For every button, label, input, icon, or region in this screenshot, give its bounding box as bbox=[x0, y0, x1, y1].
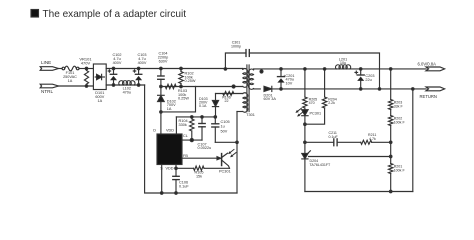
svg-text:T301: T301 bbox=[246, 113, 255, 117]
resistor R103 bbox=[165, 84, 176, 88]
node junction C103 top bbox=[137, 67, 140, 70]
node output pin RETURN bbox=[426, 87, 445, 91]
capacitor C105 bbox=[212, 117, 219, 142]
capacitor C203 bbox=[355, 69, 364, 89]
node junction drain bbox=[160, 111, 163, 114]
capacitor C211 value label bbox=[329, 131, 339, 139]
node junction S pin ground bbox=[160, 192, 163, 195]
resistor R104 value label bbox=[179, 119, 188, 127]
node junction R204 top bbox=[323, 68, 326, 71]
wire secondary top stub bbox=[254, 68, 427, 71]
wire R201 to ground bbox=[390, 174, 392, 192]
diode D103 bbox=[212, 94, 218, 117]
capacitor C105 value label bbox=[221, 120, 230, 134]
resistor R102 bbox=[179, 72, 183, 84]
node junction C103 bottom bbox=[137, 84, 140, 87]
node junction R205 top bbox=[304, 68, 307, 71]
wire LED to feedback node bbox=[304, 124, 306, 153]
svg-text:50V: 50V bbox=[221, 129, 228, 133]
node LINE input pin bbox=[40, 67, 58, 71]
wire VDD rail bbox=[176, 116, 215, 118]
resistor R105 value label bbox=[194, 170, 203, 178]
svg-text:0.25W: 0.25W bbox=[178, 97, 189, 101]
title bullet square bbox=[31, 10, 39, 18]
svg-text:The example of a adapter circu: The example of a adapter circuit bbox=[43, 9, 187, 20]
node junction C105 top bbox=[214, 116, 217, 119]
svg-text:22: 22 bbox=[225, 99, 229, 103]
node NTRL input pin bbox=[40, 84, 58, 88]
resistor R104 bbox=[190, 117, 194, 140]
transformer T301 secondary winding bbox=[249, 69, 254, 89]
wire primary ground rail bbox=[236, 112, 238, 194]
wire compensation mid bbox=[337, 141, 361, 143]
bridge rectifier D101 bbox=[93, 64, 106, 90]
capacitor C301 bbox=[246, 50, 249, 57]
svg-text:0.25W: 0.25W bbox=[185, 79, 196, 83]
transformer T301 primary winding bbox=[243, 69, 248, 88]
resistor R211 bbox=[361, 140, 372, 144]
svg-text:PC301: PC301 bbox=[310, 111, 322, 115]
svg-text:1A: 1A bbox=[68, 79, 73, 83]
IC pin VDD bottom wire bbox=[175, 165, 177, 169]
shunt regulator label bbox=[310, 159, 332, 167]
svg-text:FB: FB bbox=[183, 154, 188, 158]
resistor R106 bbox=[223, 92, 234, 96]
node junction C102 bottom bbox=[112, 84, 115, 87]
node secondary polarity dot bbox=[260, 70, 263, 73]
svg-text:10u: 10u bbox=[340, 61, 346, 65]
svg-text:TA76L431FT: TA76L431FT bbox=[310, 163, 332, 167]
node junction R102 top bbox=[180, 67, 183, 70]
node junction aux ground link bbox=[236, 141, 239, 144]
capacitor C107 value label bbox=[198, 142, 212, 150]
svg-text:630V: 630V bbox=[159, 60, 168, 64]
svg-text:400V: 400V bbox=[138, 61, 147, 65]
svg-text:D: D bbox=[153, 129, 156, 133]
wire compensation right bbox=[372, 141, 391, 143]
diode D102 value label bbox=[167, 99, 176, 111]
wire ref line bbox=[309, 156, 391, 158]
node junction R104 top bbox=[191, 116, 194, 119]
inductor L102 value label bbox=[123, 87, 131, 95]
svg-text:470u: 470u bbox=[123, 91, 131, 95]
svg-text:100k F: 100k F bbox=[394, 169, 406, 173]
wire NTRL pin to bridge bbox=[59, 85, 94, 87]
capacitor C106 value label bbox=[179, 181, 189, 189]
opto-transistor PC301 bbox=[217, 149, 236, 168]
wire R203 to R202 bbox=[390, 110, 392, 116]
resistor R204 bbox=[322, 97, 326, 108]
node junction C104 top bbox=[160, 67, 163, 70]
svg-text:LINE: LINE bbox=[41, 60, 51, 65]
svg-text:0.1uF: 0.1uF bbox=[179, 185, 189, 189]
wire divider branch top bbox=[390, 69, 392, 100]
wire return drop bbox=[412, 89, 414, 192]
wire clamp line bbox=[161, 86, 243, 88]
capacitor C104 value label bbox=[158, 52, 169, 64]
node junction R201 ground bbox=[389, 190, 392, 193]
svg-text:RETURN: RETURN bbox=[420, 94, 437, 99]
node junction C201 bottom bbox=[280, 88, 283, 91]
svg-text:100k F: 100k F bbox=[394, 121, 406, 125]
node junction C203 top bbox=[359, 68, 362, 71]
node junction CL bbox=[190, 139, 193, 142]
wire secondary bottom stub bbox=[254, 88, 261, 90]
opto LED PC301 bbox=[296, 108, 308, 124]
resistor R106 value label bbox=[222, 95, 231, 103]
svg-text:470V: 470V bbox=[81, 61, 91, 66]
svg-text:VDD: VDD bbox=[166, 129, 174, 133]
node junction Y-cap right bbox=[378, 88, 381, 91]
resistor R201 bbox=[389, 164, 393, 174]
node junction compensation bbox=[389, 141, 392, 144]
resistor R202 bbox=[389, 116, 393, 126]
inductor L201 bbox=[336, 65, 351, 69]
IC pin D wire bbox=[160, 112, 162, 134]
capacitor C103 value label bbox=[137, 53, 146, 65]
node junction clamp bbox=[160, 85, 163, 88]
capacitor C102 value label bbox=[112, 53, 121, 65]
capacitor C201 value label bbox=[283, 74, 294, 86]
wire secondary ground rail bbox=[305, 191, 413, 193]
wire fuse to bridge bbox=[79, 68, 93, 70]
svg-text:4.7k: 4.7k bbox=[369, 137, 376, 141]
resistor R204 value label bbox=[328, 98, 337, 106]
bridge D101 value label bbox=[95, 91, 104, 103]
wire CL line bbox=[182, 139, 202, 141]
wire compensation left bbox=[305, 141, 334, 143]
capacitor C107 bbox=[199, 117, 205, 140]
node junction C106 ground bbox=[175, 192, 178, 195]
capacitor C104 bbox=[158, 69, 164, 87]
wire aux top line bbox=[216, 93, 243, 95]
svg-text:0.1A: 0.1A bbox=[199, 104, 207, 108]
wire R102 stubs bbox=[180, 69, 182, 87]
node output pin 6.0V/0.8A bbox=[426, 67, 445, 71]
diode D201 value label bbox=[264, 93, 277, 101]
fuse F101 bbox=[62, 66, 79, 71]
node junction ref bbox=[389, 155, 392, 158]
svg-text:33k F: 33k F bbox=[394, 105, 404, 109]
node junction C203 bottom bbox=[359, 88, 362, 91]
node junction VDD-C106 bbox=[175, 167, 178, 170]
svg-text:VDD: VDD bbox=[165, 167, 173, 171]
node junction Y-cap left bbox=[224, 68, 227, 71]
wire Y-cap left bbox=[225, 53, 246, 69]
node junction C107 top bbox=[201, 116, 204, 119]
node junction LINE-varistor bbox=[85, 67, 88, 70]
svg-text:C105: C105 bbox=[221, 120, 230, 124]
node primary polarity dot bbox=[232, 85, 235, 88]
diode D201 bbox=[264, 86, 426, 91]
resistor R103 value label bbox=[178, 89, 189, 101]
resistor R105 bbox=[194, 166, 205, 170]
wire R204 bottom bbox=[305, 108, 325, 124]
resistor R202 value label bbox=[394, 117, 406, 125]
capacitor C211 bbox=[334, 139, 337, 146]
resistor R201 value label bbox=[394, 165, 406, 173]
node junction C201 top bbox=[280, 68, 283, 71]
inductor L201 value label bbox=[339, 57, 347, 65]
capacitor C106 bbox=[173, 168, 179, 193]
transformer T301 aux winding bbox=[243, 93, 248, 113]
wire R105 line right bbox=[204, 167, 230, 169]
resistor R203 bbox=[389, 100, 393, 110]
IC pin VDD top wire bbox=[175, 117, 177, 134]
svg-text:10V: 10V bbox=[286, 82, 293, 86]
svg-text:1A: 1A bbox=[167, 107, 172, 111]
fuse F101 value label bbox=[63, 71, 77, 83]
node junction R102 bottom bbox=[180, 85, 183, 88]
svg-text:470: 470 bbox=[309, 101, 315, 105]
wire drain link bbox=[161, 87, 196, 112]
resistor R203 value label bbox=[394, 101, 404, 109]
svg-text:330k: 330k bbox=[179, 123, 187, 127]
resistor R211 value label bbox=[368, 133, 376, 141]
wire LINE pin to fuse bbox=[59, 68, 63, 70]
capacitor C103 bbox=[133, 69, 142, 86]
svg-text:22u: 22u bbox=[365, 78, 371, 82]
svg-text:0.0022u: 0.0022u bbox=[198, 146, 212, 150]
resistor R205 value label bbox=[309, 98, 318, 106]
wire R105 line left bbox=[176, 167, 194, 169]
svg-text:S: S bbox=[160, 167, 163, 171]
capacitor C203 value label bbox=[365, 74, 374, 82]
wire C105 bottom link bbox=[215, 141, 237, 143]
svg-text:0.1uF: 0.1uF bbox=[329, 135, 339, 139]
IC U101 body bbox=[157, 134, 182, 165]
varistor VR101 bbox=[84, 71, 88, 85]
transformer T301 core bbox=[247, 65, 249, 112]
varistor VR101 label bbox=[79, 56, 92, 65]
wire R205 branch bbox=[304, 69, 306, 97]
capacitor C201 bbox=[278, 69, 285, 89]
resistor R205 bbox=[303, 97, 307, 108]
wire left ground drop bbox=[145, 85, 237, 193]
svg-text:6.0V/0.8A: 6.0V/0.8A bbox=[418, 61, 437, 66]
svg-text:1u: 1u bbox=[221, 125, 225, 129]
wire aux bottom jog bbox=[237, 111, 243, 113]
svg-text:60V 3A: 60V 3A bbox=[264, 97, 277, 101]
wire bottom line bridge to corner bbox=[106, 84, 144, 86]
IC pin S wire bbox=[161, 165, 163, 194]
node junction NTRL-varistor bbox=[85, 85, 88, 88]
svg-text:2.2k: 2.2k bbox=[328, 101, 335, 105]
svg-text:PC301: PC301 bbox=[219, 169, 231, 173]
node junction LED cathode bbox=[304, 123, 307, 126]
diode D102 bbox=[158, 87, 165, 112]
wire FB line bbox=[182, 157, 217, 159]
svg-text:400V: 400V bbox=[113, 61, 122, 65]
wire Y-cap right bbox=[249, 53, 379, 89]
capacitor C301 value label bbox=[231, 41, 241, 49]
capacitor C102 bbox=[108, 69, 117, 86]
node junction return drop bbox=[412, 88, 415, 91]
wire R202 to R201 bbox=[390, 126, 392, 164]
node junction TL431 cathode bbox=[304, 141, 307, 144]
shunt regulator D204 TA76L431FT bbox=[302, 151, 311, 192]
resistor R102 value label bbox=[185, 72, 196, 84]
wire R204 branch bbox=[324, 69, 326, 97]
inductor L102 bbox=[119, 81, 135, 85]
node junction divider top bbox=[389, 68, 392, 71]
diode D103 value label bbox=[199, 97, 208, 108]
svg-text:NTRL: NTRL bbox=[41, 89, 53, 94]
svg-text:1A: 1A bbox=[97, 99, 102, 103]
svg-text:CL: CL bbox=[183, 134, 188, 138]
wire top rail bridge to transformer bbox=[106, 68, 243, 70]
node junction C102 top bbox=[112, 67, 115, 70]
svg-text:1000p: 1000p bbox=[231, 44, 241, 48]
svg-text:15k: 15k bbox=[196, 174, 202, 178]
